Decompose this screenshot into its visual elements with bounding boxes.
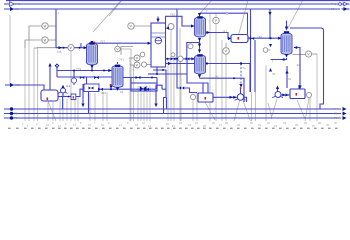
pipe C2 right loop [124,77,158,79]
wire dropper x174 [173,59,175,121]
instrument I10 [134,62,140,68]
bus line bottom3 [4,117,341,119]
pipe column top right y16 [166,16,195,26]
leader line P2 right [243,101,251,121]
wire dropper x150 [149,86,151,121]
pipe C5 outlet to x270 [271,58,287,60]
pipe B1 feed line [294,48,300,90]
instrument I12 [178,56,183,61]
valve B3 inlet [180,86,184,89]
wire dropper x190 instrument tail [180,62,183,122]
box B3 [198,93,213,102]
svg-text:4-1: 4-1 [66,84,71,88]
arrow signal into P2 [239,84,242,88]
instrument I2 [42,37,48,43]
valve in loop box [140,86,147,91]
arrow into C3 side [191,24,195,27]
arrow top2 left [10,7,14,11]
instrument wire gray box to I3 [38,47,68,49]
pipe P1 stem [62,93,64,96]
arrow P1 up stub [62,85,65,88]
pipe x111 stub [110,85,112,89]
arrow top2 right [344,7,348,11]
small box at P1 discharge [71,94,76,100]
bottom edge label row [8,128,11,129]
instrument I14 [305,51,311,57]
svg-text:62: 62 [120,90,124,94]
valve on y38.5 [250,37,254,40]
pipe B2 outlet y38.2 [248,37,282,39]
leader line from pump P3 [271,99,277,119]
pipe column outlet y63.5 [166,64,251,93]
vessel C4 [195,54,206,74]
arrow x270 down [268,12,271,16]
svg-text:74: 74 [14,107,18,111]
vessel C2 [112,65,123,88]
arrow into C4 top [198,50,201,54]
instrument I9 [134,55,140,61]
control valve stem [172,55,174,58]
pipe riser x83 to bus [82,84,84,107]
leader line top center b [109,0,122,16]
pipe y70 to x166 [153,70,166,114]
valve on y77 c [80,76,84,79]
B3 discharge arrows [230,96,237,99]
instrument I16 [263,48,268,53]
svg-text:51: 51 [331,7,335,11]
pipe staple tail [162,88,166,90]
arrow bottom2 right [343,112,347,116]
pipe B3 outlet [213,96,237,98]
pipe C4 outlet y78.2 [200,78,245,102]
svg-text:30: 30 [215,75,219,79]
instrument I19 [141,62,146,67]
instrument wire I1 left [29,26,42,40]
arrow into column wall y43.2 [148,42,152,45]
wire dropper x71 [70,51,72,121]
leader line to C3 top [200,0,213,14]
instrument wire I9 [129,57,134,59]
junction dot y58.8 a [167,58,169,60]
tick on y13 line [226,12,228,14]
instrument wire I14 right [312,53,317,55]
red tick B3 [205,97,207,100]
arrow drum vapor up [48,63,51,67]
pipe y70.5 C1 to C2 [57,70,112,72]
junction dot y58.8 x177 [176,58,178,60]
junction dot bottom2 [10,112,13,115]
bus line bottom2 [4,113,341,115]
wire dropper x180 [179,28,181,121]
wire dropper x210 [209,14,211,121]
wire dropper x103 [102,92,104,121]
pipe lollipop stem x57 [56,68,58,78]
instrument wire I16 stub [268,49,271,51]
arrow C3 outlet right [207,31,211,34]
arrow into column right wall [166,27,169,30]
junction dot bottom3 [10,116,13,119]
control valve on y58.8 [171,57,176,60]
arrow x270 mid [269,44,272,47]
wire dropper x48 [47,102,49,121]
leader line from box B3 [205,102,215,120]
pipe riser x255 [254,40,256,92]
arrow C1 outlet [90,65,93,69]
instrument circle x74 [71,78,76,83]
vessel C3 [195,16,206,37]
arrow bottom3 right [343,116,347,120]
wire dropper x10 [9,15,11,85]
instrument I8 [223,48,230,55]
svg-text:741: 741 [119,58,124,62]
bus line top1 end segment [342,3,350,5]
instrument I4 stem [117,44,119,47]
pipe y74 left stub [148,73,157,75]
leader line from instrument I15 [305,98,309,121]
pipe C5 top line to x324 [290,28,324,109]
wire dropper x90 [89,93,91,121]
red tick small box [73,96,74,98]
junction dot x270 y38 [269,37,271,39]
arrow P3 up stub [276,85,279,89]
junction dot y78 [233,77,235,79]
arrow stub x270 up [269,68,272,72]
wire dropper x67 [66,99,68,121]
svg-text:51: 51 [15,7,19,11]
wire dropper x53 [52,102,54,121]
arrow C2 outlet [116,88,119,91]
P3 suction arrows [282,94,289,97]
pipe x74 branch upper [73,71,75,78]
pipe x166 leg to bus1 [166,98,168,110]
pipe P2 top stub [240,89,242,94]
bus line top2 end segment [342,8,350,10]
instrument wire box left [34,47,133,56]
pipe column bottom outlet [157,67,187,74]
junction dot x207 y63.5 [206,62,208,64]
wire dropper x222 [221,40,223,121]
svg-text:31: 31 [288,77,292,81]
arrow x111 down [110,86,113,89]
instrument wire I2 left [25,40,42,48]
instrument wire I1 right [48,25,56,27]
junction dot y70.5 c [73,70,75,72]
svg-text:75: 75 [14,112,18,116]
arrow into C2 [108,69,112,72]
pipe riser x81 [80,43,82,48]
red tick D1 [47,98,49,101]
arrow y85 left [10,83,14,87]
svg-text:76: 76 [14,116,18,120]
red tick B2 [238,37,240,40]
instrument I5 [128,23,134,29]
red tick x110 [110,84,112,86]
pipe C3 bypass U [187,43,200,59]
wire dropper x63 [62,99,64,121]
wire dropper x131 instrument tail [120,49,131,121]
pipe riser x251 [250,9,252,92]
arrow C5 top feed [285,27,288,31]
wire dropper x226 instrument tail [225,55,227,122]
arrow C3 bottom out [198,38,201,42]
arrow into C5 side [278,37,282,40]
stub B3 top a [202,83,204,93]
wire dropper x310 [309,97,311,121]
svg-text:742: 742 [222,30,227,34]
red tick B1 [296,93,298,96]
svg-text:32: 32 [297,63,301,67]
pipe C3 to C4 connector [199,41,201,50]
wire dropper x129 [130,58,133,121]
vessel C5 [281,31,292,54]
junction dot y47.7 b [79,47,81,49]
arrow on y47.7 [59,46,63,49]
instrument I20 [140,52,145,57]
instrument I1 [42,23,48,29]
pipe staple over droppers [156,85,162,89]
instrument wire I3 right [74,47,78,49]
wire dropper x138 [137,86,139,121]
svg-text:75: 75 [334,112,338,116]
wire dropper x216 instrument tail [215,13,217,121]
wire dropper x252 [251,92,253,121]
small recycle box [84,84,99,92]
pipe riser x88.5 to bus [88,92,90,114]
leader line to B2 [238,0,248,37]
pipe C1 top line y41 [92,42,148,44]
svg-text:742: 742 [331,2,336,6]
pipe C2 top stub [117,62,119,64]
pipe column top feed stub [157,17,159,20]
valve before C4 wall [186,57,190,60]
junction dot x111 y89 [110,88,112,90]
box B2 [231,35,248,43]
arrow C4 bottom out [198,75,201,79]
leader line bottom right a [268,103,272,118]
junction dot y70.5 [91,70,93,72]
pipe P3 up stub [277,89,279,92]
box B1 [290,89,305,99]
pipe y77 line [57,76,112,78]
arrow riser x83 down [81,104,84,108]
junction dot bottom1 [10,107,13,110]
pipe P2 outlet jog [244,97,247,102]
pipe left feed y85 [5,85,44,90]
wire dropper x266 [265,65,267,121]
pipe C3 outlet y32.5 [206,33,232,39]
riser x270 from top bus [269,9,271,38]
svg-text:742: 742 [170,13,175,17]
instrument I3 [68,45,74,51]
pipe column right y58.8 [166,58,195,60]
instrument wire I5 to column [134,25,150,27]
instrument I4 [115,46,121,52]
lollipop head [55,64,58,67]
pump P1 [58,88,68,94]
leader line from box B1 [297,100,305,119]
svg-text:745: 745 [57,50,62,54]
leader line P2 left [234,101,240,121]
recycle loop box [131,78,157,84]
svg-text:022: 022 [101,91,106,95]
arrow riser x156 down [154,104,157,108]
pipe small box riser x86 [86,77,88,84]
wire dropper x317 instrument tail [316,54,318,121]
wire dropper x171 [170,30,172,121]
instrument I13 [190,94,195,99]
svg-text:742: 742 [15,2,20,6]
leader line from drum D1 [48,101,56,121]
svg-text:76: 76 [334,116,338,120]
valve on y89 a [98,88,103,91]
pipe B1 top feed arrow stem [298,85,300,89]
instrument wire I8 stem [225,43,227,48]
junction dot y77.5 x152 [151,77,153,79]
arrow C5 outlet left [281,58,284,61]
arrow stub x287 up [285,70,288,74]
instrument I15 [306,92,311,97]
bus line top1 [4,3,340,5]
instrument wire I14 left [293,54,306,56]
junction dot y47.7 a [63,47,65,49]
svg-text:74: 74 [334,107,338,111]
wire dropper x25 [24,40,26,121]
wire dropper x197 [196,93,198,121]
diamond top1 right [339,3,342,6]
column tower [151,23,166,67]
pipe P3 discharge [282,94,291,96]
wire dropper x78 [77,97,79,121]
arrow into C4 wall [191,57,194,60]
svg-text:32: 32 [272,72,276,76]
pipe riser x156 to bus [155,90,157,107]
pipe drum vapor x50 [49,66,51,90]
arrow into column top [156,19,159,23]
svg-text:757: 757 [100,40,105,44]
pipe P1 suction [58,96,71,98]
valve on y89 b [144,88,149,91]
pump P3 [272,92,283,98]
pipe C1 outlet down [91,65,93,71]
red tick C1 top [94,42,95,44]
arrow C1 top in [90,41,93,44]
vessel C1 [87,42,98,65]
pipe y13 C3 top feed [200,13,248,34]
instrument wire I2 right [48,39,56,41]
valve in recycle box [89,87,94,90]
wire dropper x144 [143,86,145,121]
wire dropper x141 [140,86,142,121]
pipe y89 line [99,88,156,90]
wire dropper x257 [255,92,257,121]
P1 discharge dots [68,96,70,98]
pump P2 [235,94,246,101]
instrument wire I10 [130,64,134,66]
control valve actuator [171,53,175,57]
wire dropper x95 [94,93,96,121]
svg-text:779: 779 [76,67,81,71]
drum D1 [41,90,58,101]
wire dropper x147 [146,86,148,121]
junction dot x241 y63.5 [240,62,242,64]
arrow C5 bottom out [285,54,288,58]
arrow into B2 [228,37,231,40]
bus line bottom1 [4,108,341,110]
instrument marks [44,25,46,27]
riser x56 from top bus [55,9,57,48]
leader line to C5 top [288,0,304,29]
pipe feed line y47.7 to C1 [56,47,87,49]
riser x177 long [177,9,180,88]
arrow into B1 top [298,86,301,90]
pipe C5 top feed stub [286,21,288,27]
instrument I7 [213,17,219,23]
svg-text:7a: 7a [243,66,247,70]
riser x187 [187,59,208,93]
svg-text:7a2: 7a2 [257,35,262,39]
wire dropper x168 [167,59,169,121]
pipe C2 outlet [117,88,119,90]
wire dropper x34 [33,48,35,121]
wire dropper x193 instrument tail [192,100,194,121]
leader line top center a [93,0,122,32]
wire dropper x60 [59,99,61,121]
instrument I21 bypass [188,44,193,49]
instrument wire I19 [147,64,151,66]
wire dropper x107 [106,92,108,121]
svg-text:021: 021 [15,83,20,87]
junction dot y70.5 b [103,70,105,72]
arrow into C5 right wall [294,46,297,49]
arrow top1 right [344,2,348,6]
pipe x74 branch lower [73,83,75,85]
arrow bottom1 right [343,107,347,111]
pipe bowtie outlet to B3 [184,88,197,93]
wire dropper x38 [37,47,39,121]
wire dropper x29 [28,26,30,121]
instrument I6 [168,24,174,30]
valve on y77 a [94,76,99,79]
junction dot x157 y74 [156,73,158,75]
arrow on column outlet y63.5 [168,62,172,65]
signal dashed x241 [240,64,242,88]
wire dropper x133 [133,65,135,121]
wire dropper x75 [74,99,76,121]
arrow top1 left (open) [10,2,15,7]
pipe x63 down to bus [62,97,64,110]
pipe after small box [76,89,84,96]
arrow into C1 feed [84,46,88,49]
arrow on C3 connector [198,44,201,48]
valve on y77.5 b [136,76,141,79]
bus line top2 [4,8,340,10]
junction dot y70 x163 [162,69,164,71]
pipe stub x287 [286,66,288,88]
red tick P2 top [240,87,242,89]
arrow C3 top feed [198,13,201,17]
bus line top0 [6,0,350,2]
